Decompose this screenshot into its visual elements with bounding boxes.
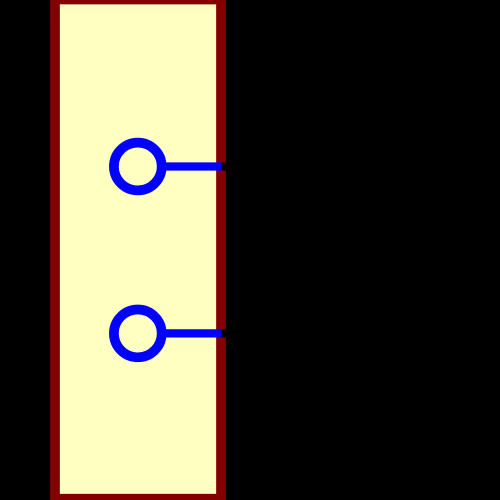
component body U1 — [55, 0, 221, 499]
pin 1 (inverted) bubble — [114, 143, 162, 191]
pin 2 (inverted) bubble — [114, 310, 162, 358]
pin 2 line — [160, 329, 222, 337]
pin 1 end segment — [222, 162, 233, 170]
pin 1 line — [160, 162, 222, 170]
pin 2 end segment — [222, 329, 233, 337]
